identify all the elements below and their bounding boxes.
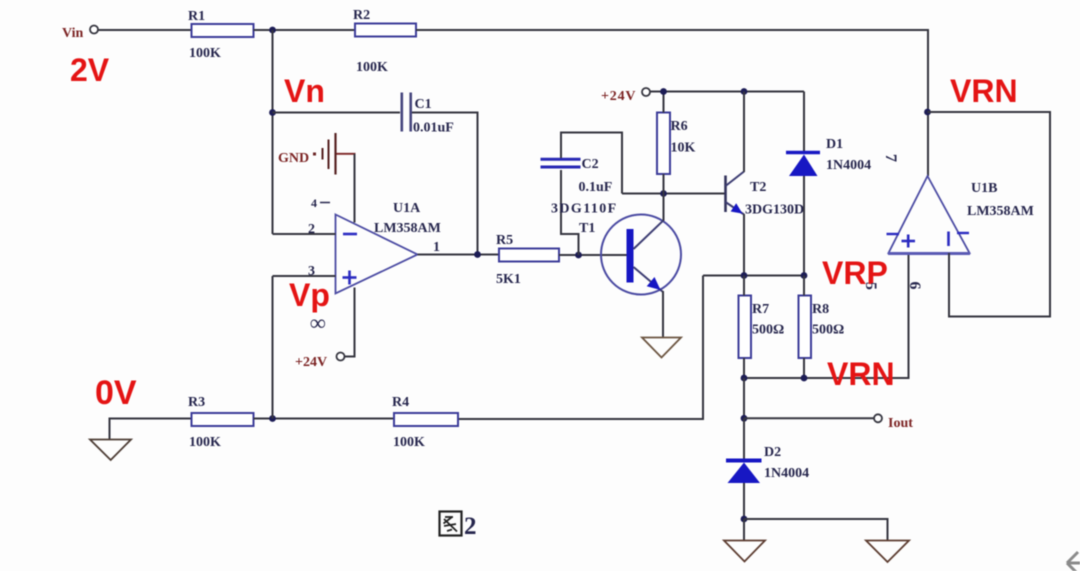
wire output pin 1 to R5 [418, 254, 500, 256]
wire to Iout terminal [744, 417, 874, 419]
svg-text:1N4004: 1N4004 [826, 158, 871, 173]
junction U1B output VRN [924, 109, 931, 116]
svg-text:10K: 10K [671, 141, 696, 156]
wire R8 top stem [803, 276, 805, 296]
junction Iout [741, 415, 748, 422]
svg-text:R4: R4 [392, 395, 409, 410]
terminal Vin [90, 26, 98, 34]
wire VRN rail to U1B pin 5 [744, 254, 909, 379]
svg-text:2V: 2V [70, 52, 110, 88]
svg-text:500Ω: 500Ω [752, 323, 784, 338]
resistor R1 [192, 24, 254, 37]
op-amp U1A [336, 215, 418, 294]
svg-text:Iout: Iout [888, 416, 913, 431]
wire U1B feedback loop pin 6 [928, 112, 1051, 317]
svg-text:+24V: +24V [601, 89, 636, 104]
capacitor C1 [400, 93, 403, 132]
svg-text:Vin: Vin [62, 26, 83, 41]
junction output-C1 [474, 251, 481, 258]
svg-text:U1B: U1B [971, 181, 997, 196]
svg-text:100K: 100K [189, 435, 221, 450]
junction D2-grounds [741, 516, 748, 523]
wire V+ power pin of U1A [345, 288, 355, 357]
svg-text:100K: 100K [356, 60, 388, 75]
junction VRN-R7 [741, 375, 748, 382]
wire C2 top branch [561, 133, 622, 194]
resistor R4 [394, 413, 458, 426]
svg-text:0.1uF: 0.1uF [579, 180, 613, 195]
resistor R7 [739, 296, 752, 359]
minus mark of U1A [343, 233, 357, 236]
svg-text:5: 5 [862, 282, 879, 290]
svg-text:R6: R6 [671, 119, 688, 134]
junction R1-R2-Vn [269, 27, 276, 34]
junction VRN-R8 [801, 375, 808, 382]
ground 2 [866, 541, 909, 563]
wire 0V ground to R3 [110, 419, 192, 440]
wire Iout junction to D2 cathode [743, 418, 745, 459]
svg-text:3DG130D: 3DG130D [745, 203, 804, 218]
wire VRN to Iout [743, 378, 745, 418]
svg-text:100K: 100K [393, 435, 425, 450]
wire +24V rail [650, 91, 805, 93]
junction VRP-R8-D1 [801, 272, 808, 279]
resistor R6 [657, 113, 670, 175]
diode D2 [726, 459, 762, 463]
wire T1 emitter to ground [662, 291, 664, 338]
minus mark of U1B rotated [947, 232, 950, 247]
svg-text:R3: R3 [188, 395, 205, 410]
wire to ground 2 [744, 519, 888, 541]
pin 5 stub tick of U1B [887, 233, 900, 235]
wire C1 to op-amp output [412, 113, 478, 255]
wire Vn vertical [272, 30, 274, 234]
wire VRP to R4 [458, 276, 703, 420]
plus mark of U1A [343, 276, 357, 279]
resistor R2 [355, 24, 416, 37]
svg-text:C1: C1 [415, 97, 432, 112]
svg-text:2: 2 [464, 513, 477, 540]
wire GND to pin 4 [337, 153, 356, 155]
svg-text:R1: R1 [188, 9, 205, 24]
junction +24V-T2 collector [741, 88, 748, 95]
wire R1 to R2 [254, 29, 356, 31]
svg-text:LM358AM: LM358AM [967, 204, 1034, 219]
wire D1 anode to VRP rail [803, 176, 805, 276]
caption figure 2 glyph box [440, 512, 462, 536]
pin 6 stub tick of U1B [957, 232, 969, 234]
wire Vin to R1 [98, 29, 192, 31]
svg-text:7: 7 [882, 154, 899, 162]
svg-text:R7: R7 [752, 302, 769, 317]
wire Vn to C1 [273, 112, 401, 114]
junction +24V-R6 [660, 88, 667, 95]
wire R2 to U1B output (top rail) [416, 30, 928, 176]
wire C2 bottom branch [561, 170, 579, 255]
svg-text:R8: R8 [812, 302, 829, 317]
wire pin 2 inverting input [273, 233, 336, 235]
svg-text:R2: R2 [353, 8, 370, 23]
svg-text:GND: GND [278, 151, 309, 166]
wire R3 to R4 [254, 418, 395, 420]
wire stem ground 1 [743, 519, 745, 541]
svg-text:4: 4 [311, 196, 317, 210]
wire D2 anode to ground [743, 483, 745, 519]
transistor T1 [601, 215, 681, 295]
resistor R8 [799, 296, 812, 359]
svg-text:6: 6 [906, 282, 923, 290]
junction R3-R4-Vp [269, 415, 276, 422]
wire R5 to T1 base [559, 254, 627, 256]
terminal +24V top [642, 88, 650, 96]
wire R6 top stem [663, 92, 665, 113]
junction VRP-R7 [741, 272, 748, 279]
junction node Vn [269, 109, 276, 116]
transistor T2 [724, 176, 727, 213]
svg-text:Vn: Vn [284, 73, 325, 109]
wire R6 bottom stem [663, 174, 665, 194]
svg-text:1: 1 [433, 240, 440, 255]
gray back arrow bottom right [1067, 552, 1080, 571]
terminal Iout [874, 414, 882, 422]
svg-text:1N4004: 1N4004 [764, 466, 809, 481]
svg-text:500Ω: 500Ω [812, 323, 844, 338]
wire pin 3 non-inverting input [273, 275, 336, 277]
diode D1 [786, 151, 820, 155]
resistor R5 [499, 249, 559, 262]
svg-text:3DG110F: 3DG110F [551, 202, 618, 217]
svg-text:T1: T1 [579, 221, 595, 236]
svg-text:R5: R5 [496, 233, 513, 248]
svg-text:+24V: +24V [295, 355, 327, 370]
wire +24V to D1 cathode [803, 92, 805, 153]
junction R6 bottom [660, 190, 667, 197]
op-amp U1B [889, 176, 970, 253]
svg-text:T2: T2 [750, 180, 766, 195]
wire R7 bottom stem [743, 358, 745, 378]
terminal +24V of U1A [337, 353, 345, 361]
junction base-C2 [575, 252, 582, 259]
capacitor C2 [541, 158, 581, 161]
wire T2 emitter to VRP rail [743, 214, 745, 276]
svg-text:Vp: Vp [289, 277, 330, 313]
svg-text:VRN: VRN [827, 356, 895, 392]
svg-text:5K1: 5K1 [496, 272, 521, 287]
ground 0V [90, 440, 131, 461]
ground below T1 [642, 338, 681, 358]
svg-text:C2: C2 [582, 157, 599, 172]
svg-text:LM358AM: LM358AM [374, 221, 441, 236]
svg-text:D2: D2 [764, 445, 781, 460]
wire VRP rail [703, 275, 804, 277]
wire Vp vertical [272, 276, 274, 419]
wire R7 top stem [743, 276, 745, 296]
svg-text:D1: D1 [826, 137, 843, 152]
svg-text:∞: ∞ [310, 310, 326, 335]
svg-text:VRN: VRN [950, 73, 1018, 109]
svg-text:U1A: U1A [393, 201, 421, 216]
resistor R3 [192, 413, 254, 426]
svg-text:0V: 0V [95, 374, 137, 412]
wire R8 bottom stem [803, 358, 805, 378]
plus mark of U1B [902, 240, 916, 243]
wire base rail to T2 [622, 193, 726, 195]
ground 1 below D2 [724, 541, 765, 562]
svg-text:100K: 100K [189, 46, 221, 61]
svg-text:0.01uF: 0.01uF [413, 121, 454, 136]
